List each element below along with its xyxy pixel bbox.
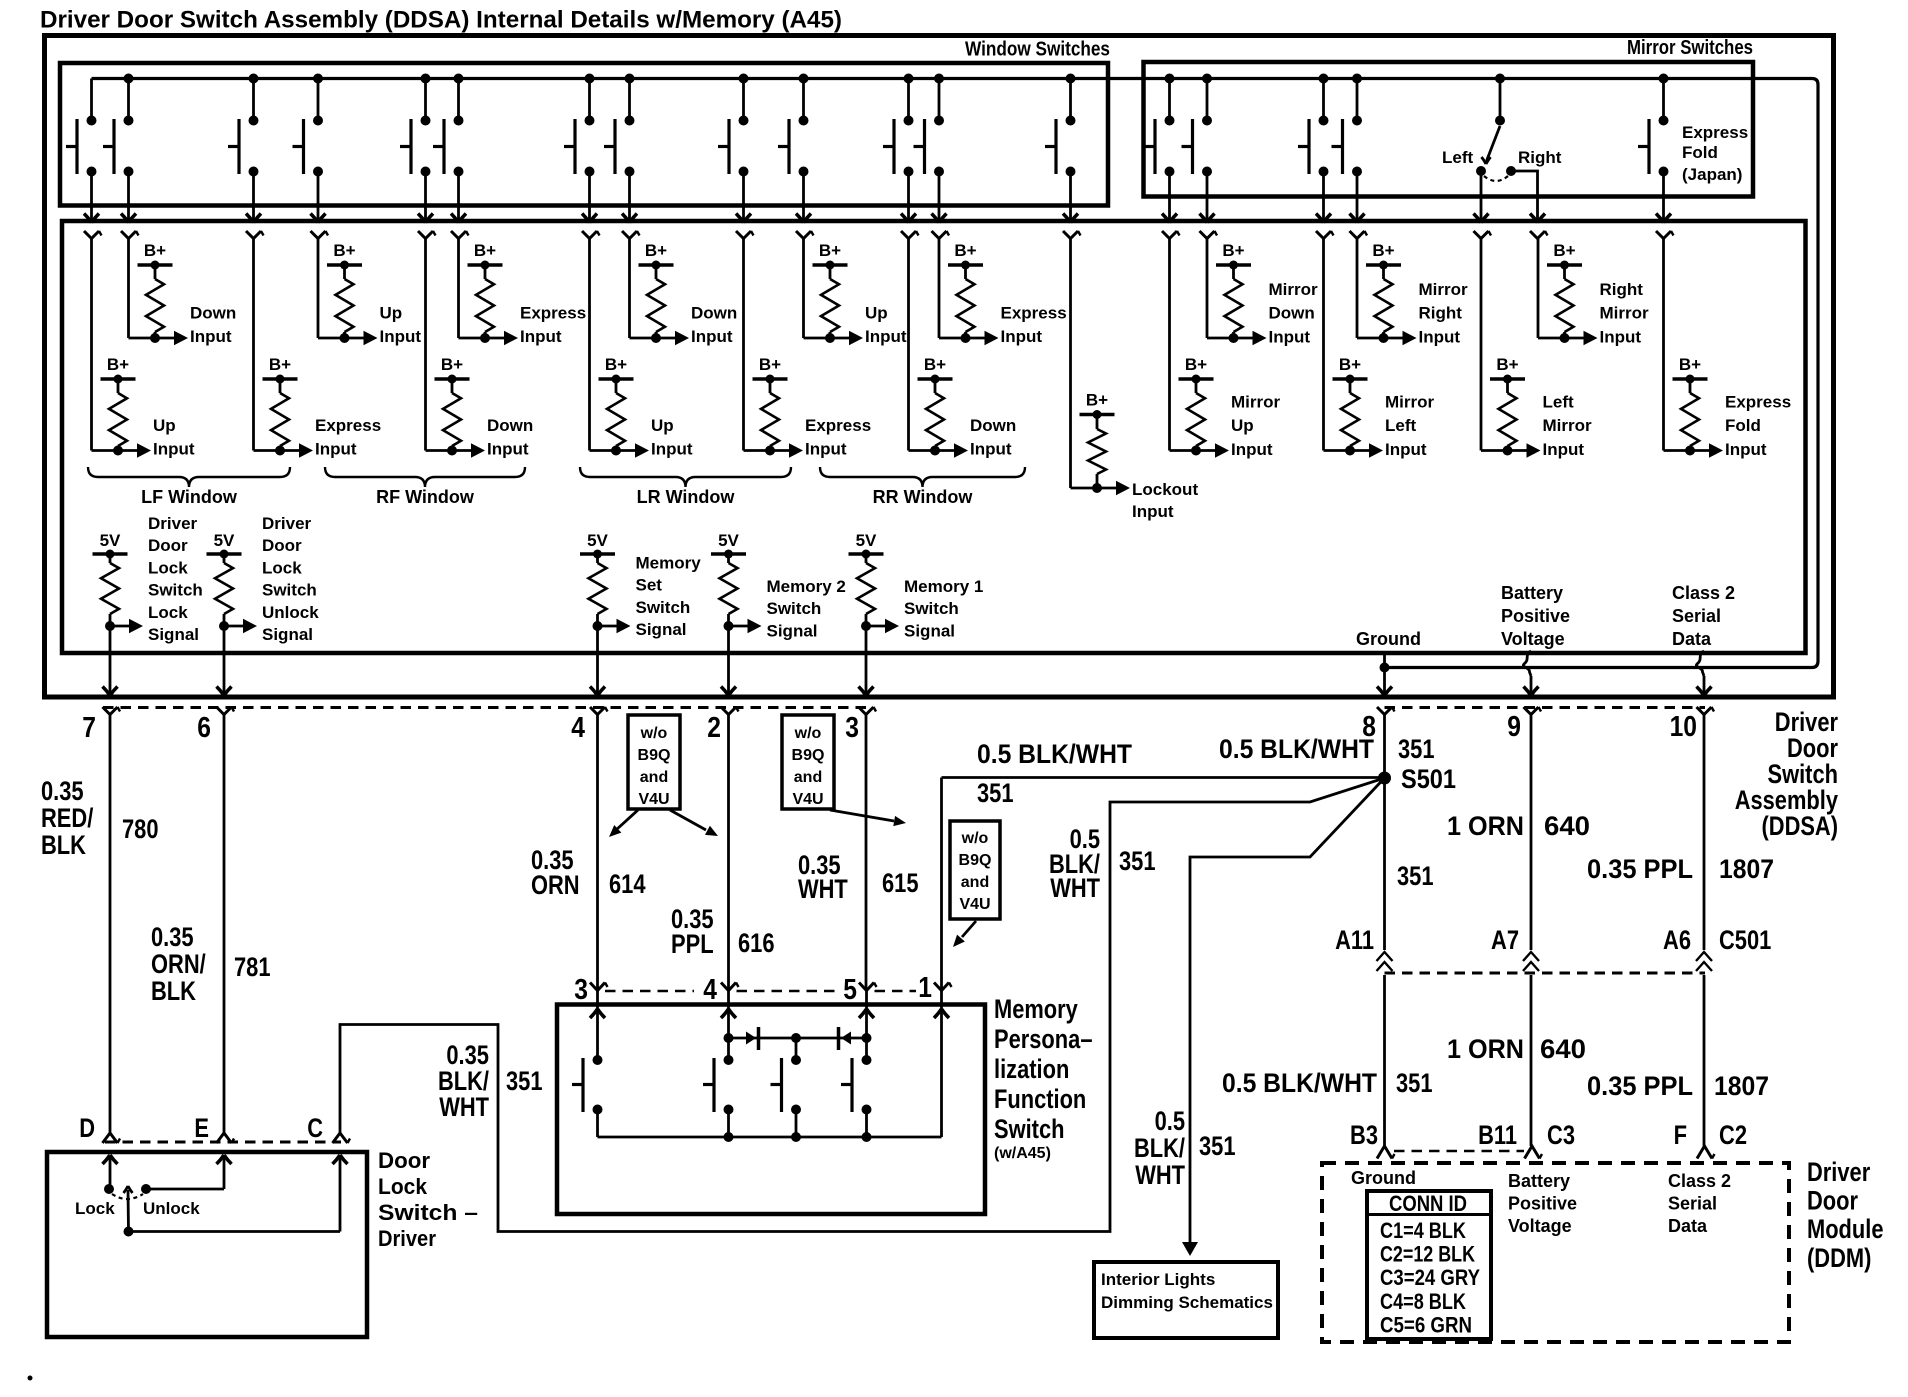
svg-text:and: and	[794, 769, 822, 786]
svg-text:LF Window: LF Window	[141, 487, 238, 507]
svg-text:615: 615	[882, 868, 919, 898]
svg-text:Switch: Switch	[994, 1114, 1065, 1144]
svg-text:B+: B+	[107, 355, 129, 374]
svg-text:Mirror: Mirror	[1269, 280, 1319, 299]
svg-text:351: 351	[1396, 1068, 1433, 1098]
svg-text:B+: B+	[333, 241, 355, 260]
svg-text:w/o: w/o	[794, 725, 822, 742]
svg-text:Down: Down	[487, 416, 533, 435]
svg-text:Class 2: Class 2	[1672, 583, 1735, 603]
svg-text:Up: Up	[380, 304, 403, 323]
svg-text:BLK: BLK	[41, 830, 86, 860]
svg-text:LR Window: LR Window	[637, 487, 736, 507]
svg-text:781: 781	[234, 952, 271, 982]
svg-text:3: 3	[845, 712, 859, 744]
svg-text:3: 3	[574, 974, 588, 1006]
svg-text:Unlock: Unlock	[143, 1199, 200, 1218]
svg-text:Memory 2: Memory 2	[767, 577, 846, 596]
svg-text:351: 351	[977, 778, 1014, 808]
svg-text:C4=8 BLK: C4=8 BLK	[1380, 1289, 1466, 1314]
svg-text:B+: B+	[1496, 355, 1518, 374]
svg-text:Input: Input	[1132, 502, 1174, 521]
svg-text:B+: B+	[1679, 355, 1701, 374]
svg-text:Input: Input	[190, 327, 232, 346]
svg-text:PPL: PPL	[671, 929, 714, 959]
svg-text:C: C	[307, 1113, 323, 1143]
svg-text:Set: Set	[636, 576, 663, 595]
svg-text:and: and	[961, 874, 989, 891]
svg-text:Down: Down	[970, 416, 1016, 435]
svg-text:Mirror: Mirror	[1231, 393, 1281, 412]
svg-text:Function: Function	[994, 1084, 1086, 1114]
svg-text:C1=4 BLK: C1=4 BLK	[1380, 1218, 1466, 1243]
svg-text:Memory 1: Memory 1	[904, 577, 983, 596]
svg-text:Memory: Memory	[636, 554, 702, 573]
svg-text:780: 780	[122, 814, 159, 844]
svg-text:V4U: V4U	[792, 791, 823, 808]
svg-text:C2=12 BLK: C2=12 BLK	[1380, 1242, 1475, 1267]
svg-text:Lock: Lock	[378, 1174, 428, 1199]
svg-text:B+: B+	[759, 355, 781, 374]
svg-text:Input: Input	[805, 440, 847, 459]
svg-text:Input: Input	[1269, 327, 1311, 346]
svg-text:WHT: WHT	[439, 1092, 489, 1122]
svg-text:Input: Input	[691, 327, 733, 346]
svg-text:Interior Lights: Interior Lights	[1101, 1270, 1215, 1289]
svg-text:Mirror Switches: Mirror Switches	[1627, 37, 1753, 59]
svg-text:4: 4	[703, 974, 717, 1006]
svg-text:Voltage: Voltage	[1501, 629, 1565, 649]
svg-text:Serial: Serial	[1668, 1194, 1717, 1214]
svg-text:(DDM): (DDM)	[1807, 1243, 1871, 1273]
svg-text:lization: lization	[994, 1054, 1069, 1084]
svg-text:Left: Left	[1385, 416, 1417, 435]
svg-text:RED/: RED/	[41, 803, 94, 833]
svg-text:Signal: Signal	[148, 625, 199, 644]
svg-text:Window Switches: Window Switches	[965, 39, 1110, 61]
svg-text:Switch: Switch	[767, 599, 822, 618]
svg-text:Signal: Signal	[904, 621, 955, 640]
svg-text:Up: Up	[153, 416, 176, 435]
svg-text:Switch –: Switch –	[378, 1200, 478, 1225]
svg-text:Dimming Schematics: Dimming Schematics	[1101, 1293, 1273, 1312]
svg-text:Lock: Lock	[148, 603, 188, 622]
svg-text:Input: Input	[1001, 327, 1043, 346]
svg-text:2: 2	[707, 712, 721, 744]
svg-text:Down: Down	[1269, 304, 1315, 323]
svg-text:Express: Express	[1001, 304, 1067, 323]
svg-text:Right: Right	[1518, 148, 1562, 167]
svg-text:Driver: Driver	[262, 514, 312, 533]
svg-text:Driver: Driver	[1807, 1157, 1871, 1187]
svg-text:WHT: WHT	[1135, 1160, 1185, 1190]
svg-text:Class 2: Class 2	[1668, 1171, 1731, 1191]
svg-text:7: 7	[82, 712, 96, 744]
svg-text:5V: 5V	[100, 531, 121, 550]
svg-text:Input: Input	[1725, 440, 1767, 459]
svg-text:Lock: Lock	[148, 558, 188, 577]
svg-text:Express: Express	[805, 416, 871, 435]
svg-text:0.5: 0.5	[1155, 1106, 1185, 1136]
svg-text:w/o: w/o	[640, 725, 668, 742]
svg-text:WHT: WHT	[1050, 873, 1100, 903]
svg-text:Signal: Signal	[767, 621, 818, 640]
svg-text:Left: Left	[1543, 393, 1575, 412]
svg-text:351: 351	[1398, 734, 1435, 764]
svg-text:Door: Door	[1807, 1186, 1858, 1216]
svg-text:BLK: BLK	[151, 976, 196, 1006]
svg-text:Input: Input	[1600, 327, 1642, 346]
svg-text:1807: 1807	[1714, 1071, 1769, 1101]
svg-text:Driver Door Switch Assembly (D: Driver Door Switch Assembly (DDSA) Inter…	[40, 7, 842, 34]
svg-text:5V: 5V	[856, 531, 877, 550]
svg-text:Input: Input	[970, 440, 1012, 459]
svg-text:Switch: Switch	[262, 581, 317, 600]
svg-text:(w/A45): (w/A45)	[994, 1145, 1051, 1162]
svg-text:Up: Up	[865, 304, 888, 323]
svg-text:1 ORN: 1 ORN	[1447, 1034, 1524, 1064]
svg-text:B9Q: B9Q	[792, 747, 825, 764]
svg-text:A11: A11	[1335, 925, 1374, 955]
svg-text:Mirror: Mirror	[1419, 280, 1469, 299]
svg-text:E: E	[194, 1113, 209, 1143]
svg-text:C5=6 GRN: C5=6 GRN	[1380, 1312, 1472, 1337]
svg-text:Memory: Memory	[994, 994, 1078, 1024]
svg-text:Ground: Ground	[1351, 1168, 1416, 1188]
svg-text:Right: Right	[1419, 304, 1463, 323]
svg-text:Module: Module	[1807, 1214, 1884, 1244]
svg-text:Input: Input	[153, 440, 195, 459]
svg-text:0.35: 0.35	[41, 776, 84, 806]
svg-text:Down: Down	[190, 304, 236, 323]
svg-text:0.35: 0.35	[151, 922, 194, 952]
svg-text:B+: B+	[474, 241, 496, 260]
svg-text:Input: Input	[1385, 440, 1427, 459]
svg-text:Mirror: Mirror	[1385, 393, 1435, 412]
svg-text:Input: Input	[487, 440, 529, 459]
svg-text:Lock: Lock	[75, 1199, 115, 1218]
svg-text:B+: B+	[1372, 241, 1394, 260]
svg-text:B+: B+	[144, 241, 166, 260]
svg-text:Door: Door	[148, 536, 188, 555]
svg-text:B+: B+	[1339, 355, 1361, 374]
svg-text:Input: Input	[1543, 440, 1585, 459]
svg-text:B+: B+	[645, 241, 667, 260]
svg-text:Door: Door	[262, 536, 302, 555]
svg-text:Input: Input	[651, 440, 693, 459]
svg-text:616: 616	[738, 928, 775, 958]
svg-text:640: 640	[1544, 811, 1590, 841]
svg-text:5: 5	[843, 974, 857, 1006]
svg-text:0.5 BLK/WHT: 0.5 BLK/WHT	[1219, 734, 1374, 764]
svg-text:Signal: Signal	[636, 620, 687, 639]
svg-text:B+: B+	[1553, 241, 1575, 260]
svg-text:Driver: Driver	[148, 514, 198, 533]
svg-text:Left: Left	[1442, 148, 1474, 167]
svg-text:Fold: Fold	[1682, 143, 1718, 162]
svg-text:Ground: Ground	[1356, 629, 1421, 649]
svg-text:Input: Input	[520, 327, 562, 346]
svg-text:640: 640	[1540, 1034, 1586, 1064]
svg-text:Input: Input	[865, 327, 907, 346]
svg-text:10: 10	[1670, 711, 1697, 743]
svg-text:Persona–: Persona–	[994, 1024, 1093, 1054]
svg-text:C3=24 GRY: C3=24 GRY	[1380, 1265, 1480, 1290]
svg-text:ORN/: ORN/	[151, 949, 206, 979]
svg-text:0.5 BLK/WHT: 0.5 BLK/WHT	[977, 739, 1132, 769]
svg-text:Mirror: Mirror	[1543, 416, 1593, 435]
svg-text:Voltage: Voltage	[1508, 1216, 1572, 1236]
svg-text:Serial: Serial	[1672, 606, 1721, 626]
svg-text:B+: B+	[269, 355, 291, 374]
svg-text:CONN ID: CONN ID	[1389, 1191, 1467, 1216]
svg-text:Positive: Positive	[1501, 606, 1570, 626]
svg-text:Lockout: Lockout	[1132, 480, 1198, 499]
svg-text:Express: Express	[520, 304, 586, 323]
svg-text:4: 4	[571, 712, 585, 744]
svg-text:C3: C3	[1547, 1120, 1575, 1150]
svg-text:Up: Up	[651, 416, 674, 435]
svg-text:5V: 5V	[718, 531, 739, 550]
svg-text:Right: Right	[1600, 280, 1644, 299]
svg-text:B+: B+	[1222, 241, 1244, 260]
svg-text:Fold: Fold	[1725, 416, 1761, 435]
svg-text:RR Window: RR Window	[873, 487, 974, 507]
svg-text:Switch: Switch	[148, 581, 203, 600]
svg-text:Battery: Battery	[1501, 583, 1563, 603]
svg-text:Data: Data	[1668, 1216, 1708, 1236]
svg-text:(Japan): (Japan)	[1682, 165, 1742, 184]
svg-text:D: D	[79, 1113, 95, 1143]
svg-text:351: 351	[1199, 1131, 1236, 1161]
svg-text:Up: Up	[1231, 416, 1254, 435]
svg-text:V4U: V4U	[959, 896, 990, 913]
svg-text:Down: Down	[691, 304, 737, 323]
svg-text:A6: A6	[1663, 925, 1691, 955]
svg-text:351: 351	[1397, 861, 1434, 891]
svg-text:Signal: Signal	[262, 625, 313, 644]
svg-text:Input: Input	[380, 327, 422, 346]
svg-text:B+: B+	[924, 355, 946, 374]
svg-text:Input: Input	[1231, 440, 1273, 459]
svg-text:0.5 BLK/WHT: 0.5 BLK/WHT	[1222, 1068, 1377, 1098]
svg-text:C2: C2	[1719, 1120, 1747, 1150]
svg-text:B9Q: B9Q	[959, 852, 992, 869]
svg-text:Express: Express	[1725, 393, 1791, 412]
svg-text:and: and	[640, 769, 668, 786]
svg-text:Door: Door	[378, 1148, 430, 1173]
svg-text:Switch: Switch	[636, 598, 691, 617]
svg-text:9: 9	[1507, 711, 1521, 743]
svg-text:Express: Express	[315, 416, 381, 435]
svg-text:B+: B+	[819, 241, 841, 260]
svg-text:0.35 PPL: 0.35 PPL	[1587, 854, 1693, 884]
svg-text:WHT: WHT	[798, 874, 848, 904]
svg-text:(DDSA): (DDSA)	[1762, 811, 1839, 841]
svg-text:Input: Input	[315, 440, 357, 459]
svg-text:BLK/: BLK/	[1134, 1133, 1185, 1163]
svg-text:Driver: Driver	[378, 1226, 436, 1251]
svg-text:614: 614	[609, 869, 646, 899]
svg-text:Battery: Battery	[1508, 1171, 1570, 1191]
svg-text:Input: Input	[1419, 327, 1461, 346]
svg-text:B+: B+	[605, 355, 627, 374]
svg-text:Unlock: Unlock	[262, 603, 319, 622]
svg-text:1807: 1807	[1719, 854, 1774, 884]
svg-text:V4U: V4U	[638, 791, 669, 808]
svg-text:Switch: Switch	[904, 599, 959, 618]
svg-text:Positive: Positive	[1508, 1194, 1577, 1214]
svg-text:Mirror: Mirror	[1600, 304, 1650, 323]
svg-text:B+: B+	[1086, 391, 1108, 410]
svg-text:1: 1	[918, 972, 932, 1004]
svg-text:B+: B+	[441, 355, 463, 374]
svg-text:6: 6	[197, 712, 211, 744]
svg-text:351: 351	[1119, 846, 1156, 876]
svg-text:5V: 5V	[214, 531, 235, 550]
svg-text:Lock: Lock	[262, 558, 302, 577]
svg-text:C501: C501	[1719, 925, 1771, 955]
svg-text:Express: Express	[1682, 123, 1748, 142]
svg-text:RF Window: RF Window	[376, 487, 475, 507]
svg-text:w/o: w/o	[961, 830, 989, 847]
svg-text:F: F	[1674, 1120, 1687, 1150]
svg-text:B3: B3	[1350, 1120, 1378, 1150]
svg-text:B11: B11	[1478, 1120, 1517, 1150]
svg-text:ORN: ORN	[531, 870, 580, 900]
svg-text:S501: S501	[1401, 764, 1456, 794]
svg-text:B9Q: B9Q	[638, 747, 671, 764]
svg-text:Data: Data	[1672, 629, 1712, 649]
svg-text:B+: B+	[1185, 355, 1207, 374]
svg-text:0.35 PPL: 0.35 PPL	[1587, 1071, 1693, 1101]
svg-text:A7: A7	[1491, 925, 1519, 955]
svg-text:B+: B+	[954, 241, 976, 260]
svg-text:1 ORN: 1 ORN	[1447, 811, 1524, 841]
svg-text:351: 351	[506, 1066, 543, 1096]
svg-text:5V: 5V	[587, 531, 608, 550]
